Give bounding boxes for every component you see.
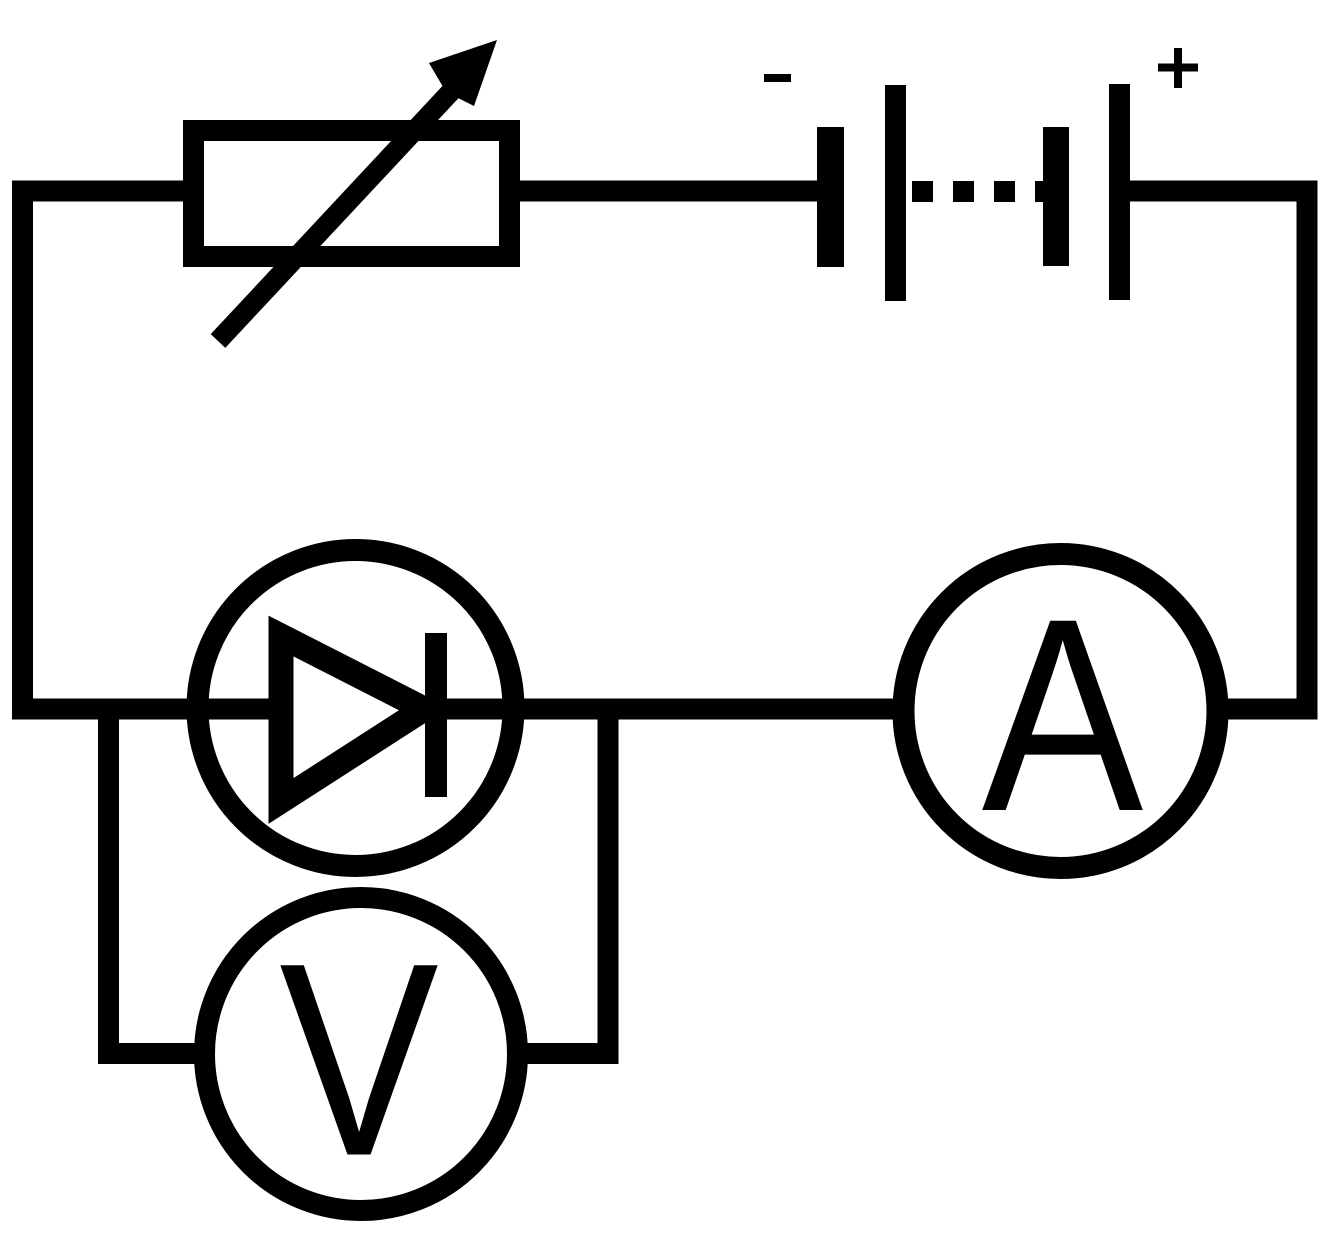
wire: voltmeter branch right [526,709,608,1054]
ammeter A circle [904,554,1218,868]
battery cell 1 short plate (negative terminal) [817,127,844,267]
wire: voltmeter branch left [109,709,197,1054]
battery cell 2 short plate [1043,127,1069,266]
voltmeter V circle [205,898,518,1211]
svg-text:A: A [982,562,1145,869]
wire: resistor to battery [520,181,818,202]
variable-resistor arrow head [429,40,497,106]
battery cell 2 long plate (positive terminal) [1109,84,1130,300]
label - (negative) [764,74,791,82]
diode D circle [198,550,514,866]
battery cell 1 long plate [885,85,906,301]
wire: battery to right side, down, into ammeter [1130,191,1307,709]
svg-text:V: V [279,906,440,1213]
variable-resistor arrow shaft [218,84,458,341]
resistor R (variable) box [194,131,510,257]
diode D triangle (anode) [281,636,424,801]
battery dashed link (omitted cells) [912,181,1044,202]
label + (positive) [1158,48,1198,88]
wire: left loop (top-left horizontal, left vertical, middle horizontal to ammeter) [23,191,896,709]
diode D cathode bar [425,633,447,797]
